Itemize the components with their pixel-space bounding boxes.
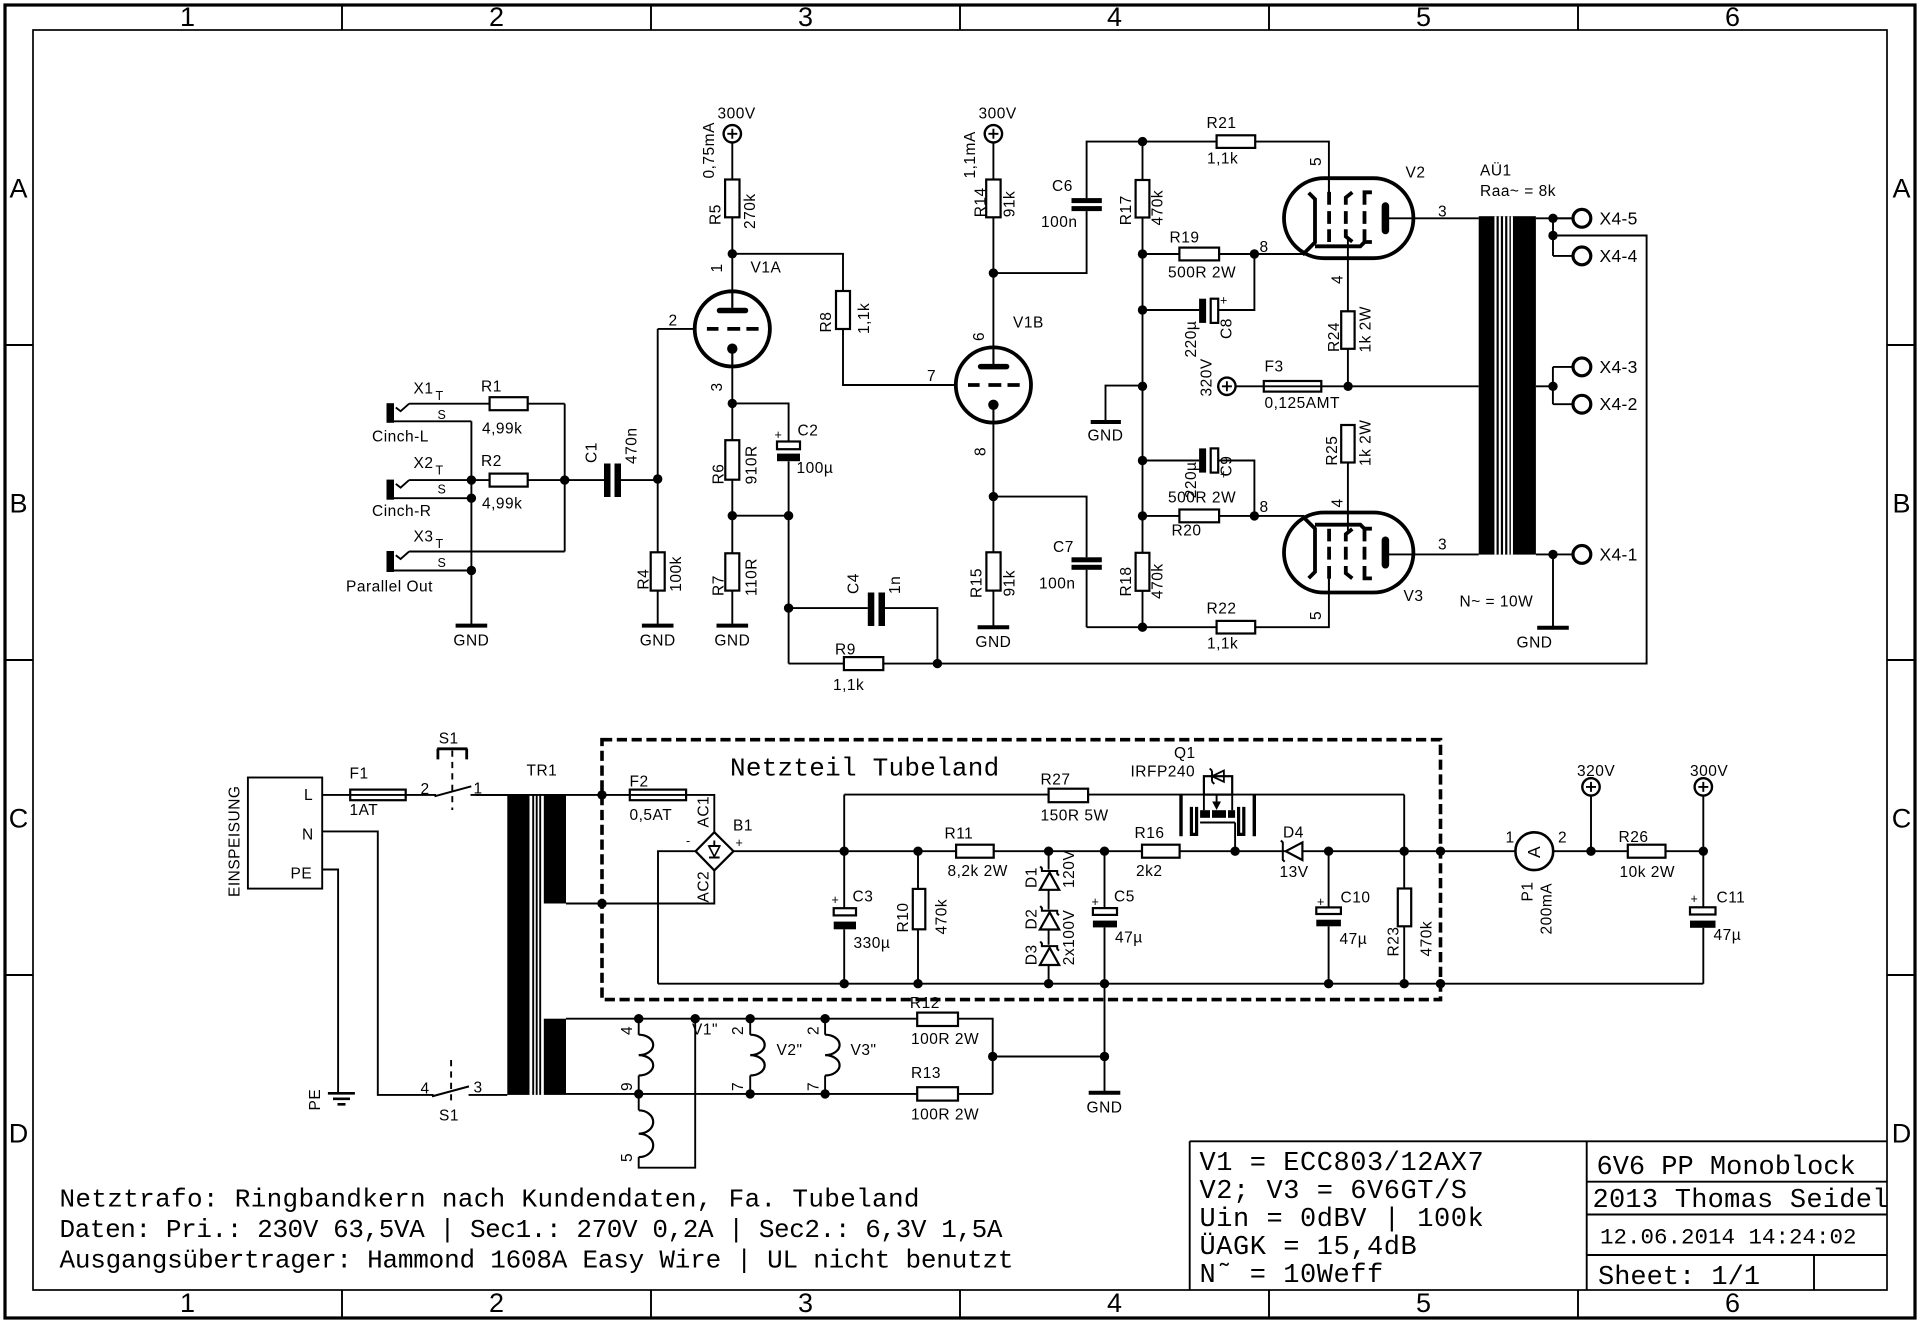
svg-text:200mA: 200mA [1539, 883, 1556, 935]
svg-text:C3: C3 [853, 889, 874, 906]
svg-text:X1: X1 [414, 381, 434, 398]
svg-text:2: 2 [669, 313, 678, 330]
svg-text:150R 5W: 150R 5W [1041, 808, 1109, 825]
svg-text:C11: C11 [1717, 890, 1746, 907]
svg-text:V2": V2" [777, 1042, 803, 1059]
svg-text:6V6 PP Monoblock: 6V6 PP Monoblock [1597, 1153, 1856, 1183]
svg-text:R4: R4 [636, 569, 653, 590]
svg-text:Sheet: 1/1: Sheet: 1/1 [1598, 1263, 1760, 1293]
svg-text:R27: R27 [1041, 772, 1071, 789]
svg-text:1,1k: 1,1k [1207, 636, 1238, 653]
svg-text:R21: R21 [1207, 115, 1237, 132]
svg-text:X3: X3 [414, 529, 434, 546]
svg-text:A: A [1524, 846, 1544, 858]
svg-text:GND: GND [1087, 1100, 1123, 1117]
svg-text:+: + [1220, 294, 1228, 308]
svg-text:4: 4 [1107, 2, 1122, 32]
svg-text:B1: B1 [733, 818, 753, 835]
svg-text:4: 4 [1330, 498, 1347, 507]
svg-text:6: 6 [1725, 2, 1740, 32]
svg-text:5: 5 [1416, 2, 1431, 32]
svg-text:R7: R7 [711, 575, 728, 596]
svg-text:3: 3 [709, 382, 726, 391]
svg-text:T: T [436, 464, 444, 478]
svg-text:B: B [9, 489, 27, 519]
svg-text:8: 8 [1260, 239, 1269, 256]
svg-text:470k: 470k [1150, 190, 1167, 226]
svg-text:Uin = 0dBV | 100k: Uin = 0dBV | 100k [1200, 1205, 1485, 1235]
svg-text:320V: 320V [1199, 358, 1216, 396]
svg-text:3: 3 [798, 1288, 813, 1318]
svg-text:V1": V1" [692, 1022, 718, 1039]
svg-text:R1: R1 [481, 379, 502, 396]
svg-text:300V: 300V [718, 106, 756, 123]
svg-text:V3: V3 [1404, 588, 1424, 605]
svg-text:5: 5 [1308, 157, 1325, 166]
svg-text:N: N [302, 827, 314, 844]
svg-text:12.06.2014 14:24:02: 12.06.2014 14:24:02 [1600, 1225, 1857, 1251]
svg-text:220µ: 220µ [1183, 321, 1200, 358]
svg-text:100n: 100n [1039, 576, 1075, 593]
svg-text:X4-5: X4-5 [1600, 208, 1638, 228]
svg-text:T: T [436, 389, 444, 403]
svg-text:GND: GND [1517, 635, 1553, 652]
svg-text:PE: PE [307, 1089, 324, 1111]
svg-text:AC1: AC1 [696, 796, 713, 828]
svg-text:7: 7 [927, 368, 936, 385]
svg-text:R24: R24 [1326, 322, 1343, 352]
svg-text:R5: R5 [708, 204, 725, 225]
svg-text:R11: R11 [945, 826, 974, 843]
svg-text:+: + [1092, 895, 1100, 909]
svg-text:F2: F2 [630, 774, 649, 791]
svg-text:4: 4 [1330, 275, 1347, 284]
svg-text:C1: C1 [584, 442, 601, 463]
svg-text:0,125AMT: 0,125AMT [1265, 395, 1341, 412]
svg-text:220µ: 220µ [1183, 462, 1200, 499]
svg-text:+: + [736, 836, 744, 850]
svg-text:4: 4 [421, 1081, 430, 1098]
svg-text:X4-3: X4-3 [1600, 357, 1638, 377]
svg-text:TR1: TR1 [527, 763, 558, 780]
svg-text:4: 4 [619, 1026, 636, 1035]
svg-text:X4-4: X4-4 [1600, 246, 1638, 266]
svg-text:GND: GND [640, 633, 676, 650]
svg-text:+: + [1317, 895, 1325, 909]
svg-text:C: C [1892, 804, 1912, 834]
svg-text:X4-1: X4-1 [1600, 544, 1638, 564]
svg-text:R25: R25 [1324, 436, 1341, 466]
svg-text:P1: P1 [1519, 882, 1536, 902]
svg-text:ÜAGK = 15,4dB: ÜAGK = 15,4dB [1200, 1231, 1418, 1263]
svg-text:330µ: 330µ [854, 935, 891, 952]
svg-text:AC2: AC2 [696, 871, 713, 903]
svg-text:D4: D4 [1283, 825, 1304, 842]
svg-text:1,1mA: 1,1mA [962, 131, 979, 178]
svg-text:Cinch-R: Cinch-R [372, 503, 431, 520]
svg-text:+: + [832, 893, 840, 907]
svg-text:3: 3 [798, 2, 813, 32]
svg-text:1: 1 [180, 1288, 195, 1318]
svg-text:91k: 91k [1002, 570, 1019, 597]
svg-text:3: 3 [1438, 204, 1447, 221]
svg-text:Netztrafo: Ringbandkern nach K: Netztrafo: Ringbandkern nach Kundendaten… [60, 1185, 920, 1215]
svg-text:1AT: 1AT [350, 802, 379, 819]
svg-text:C8: C8 [1219, 318, 1236, 339]
svg-text:B: B [1892, 489, 1910, 519]
svg-text:8: 8 [1260, 499, 1269, 516]
svg-text:R26: R26 [1619, 829, 1649, 846]
svg-text:C2: C2 [798, 423, 819, 440]
svg-text:47µ: 47µ [1714, 927, 1742, 944]
svg-text:X4-2: X4-2 [1600, 394, 1638, 414]
svg-text:V1B: V1B [1013, 315, 1044, 332]
svg-text:D3: D3 [1024, 944, 1041, 965]
svg-text:PE: PE [291, 866, 313, 883]
svg-text:AÜ1: AÜ1 [1480, 162, 1512, 180]
svg-text:R19: R19 [1170, 230, 1200, 247]
svg-text:1: 1 [709, 263, 726, 272]
svg-text:X2: X2 [414, 455, 434, 472]
svg-text:V2: V2 [1406, 165, 1426, 182]
svg-text:2x100V: 2x100V [1061, 909, 1078, 965]
svg-text:R8: R8 [818, 312, 835, 333]
svg-text:100R 2W: 100R 2W [911, 1107, 979, 1124]
svg-text:+: + [1691, 892, 1699, 906]
svg-text:D: D [9, 1119, 29, 1149]
svg-text:R18: R18 [1118, 567, 1135, 597]
svg-text:Raa~ = 8k: Raa~ = 8k [1480, 183, 1556, 200]
svg-text:GND: GND [975, 634, 1011, 651]
svg-text:320V: 320V [1577, 763, 1615, 780]
svg-text:110R: 110R [744, 558, 761, 596]
svg-text:D: D [1892, 1119, 1912, 1149]
svg-text:100k: 100k [668, 556, 685, 592]
svg-text:1k 2W: 1k 2W [1357, 420, 1374, 466]
svg-text:470n: 470n [624, 428, 641, 464]
svg-text:120V: 120V [1061, 850, 1078, 888]
svg-text:C7: C7 [1053, 539, 1074, 556]
svg-text:9: 9 [619, 1082, 636, 1091]
svg-text:Netzteil Tubeland: Netzteil Tubeland [730, 754, 1000, 784]
svg-text:2k2: 2k2 [1136, 863, 1163, 880]
svg-text:D2: D2 [1024, 909, 1041, 930]
svg-text:1,1k: 1,1k [833, 677, 864, 694]
svg-text:6: 6 [971, 332, 988, 341]
svg-text:1,1k: 1,1k [1207, 151, 1238, 168]
svg-text:EINSPEISUNG: EINSPEISUNG [227, 786, 244, 897]
svg-text:R14: R14 [973, 187, 990, 217]
svg-text:IRFP240: IRFP240 [1131, 763, 1196, 780]
svg-text:C10: C10 [1341, 890, 1371, 907]
svg-text:10k 2W: 10k 2W [1620, 864, 1676, 881]
svg-text:470k: 470k [1150, 563, 1167, 599]
svg-text:-: - [686, 834, 691, 848]
svg-text:8,2k 2W: 8,2k 2W [948, 863, 1008, 880]
svg-text:470k: 470k [1419, 921, 1436, 957]
svg-text:7: 7 [730, 1082, 747, 1091]
svg-text:91k: 91k [1001, 191, 1018, 218]
svg-text:100R 2W: 100R 2W [911, 1031, 979, 1048]
svg-text:3: 3 [474, 1080, 483, 1097]
svg-text:S: S [438, 556, 447, 570]
svg-text:2: 2 [489, 2, 504, 32]
svg-text:F3: F3 [1265, 359, 1284, 376]
svg-text:D1: D1 [1024, 867, 1041, 888]
svg-text:S: S [438, 483, 447, 497]
svg-text:R20: R20 [1172, 523, 1202, 540]
svg-text:8: 8 [973, 447, 990, 456]
svg-text:+: + [775, 428, 783, 442]
svg-text:2: 2 [1558, 830, 1567, 847]
svg-text:Daten: Pri.: 230V 63,5VA | Sec: Daten: Pri.: 230V 63,5VA | Sec1.: 270V 0… [60, 1215, 1003, 1245]
svg-text:2013 Thomas Seidel: 2013 Thomas Seidel [1593, 1186, 1889, 1216]
svg-text:4,99k: 4,99k [482, 421, 522, 438]
svg-text:Parallel Out: Parallel Out [346, 579, 433, 596]
svg-text:S1: S1 [439, 731, 459, 748]
svg-text:1n: 1n [887, 576, 904, 594]
svg-text:N˜ = 10Weff: N˜ = 10Weff [1200, 1261, 1384, 1291]
svg-text:R6: R6 [711, 464, 728, 485]
svg-text:R2: R2 [481, 453, 502, 470]
svg-text:S1: S1 [439, 1108, 459, 1125]
svg-text:3: 3 [1438, 537, 1447, 554]
svg-text:V2; V3 = 6V6GT/S: V2; V3 = 6V6GT/S [1200, 1177, 1468, 1207]
svg-text:R13: R13 [911, 1065, 941, 1082]
svg-text:Q1: Q1 [1174, 745, 1196, 762]
svg-text:0,5AT: 0,5AT [630, 807, 673, 824]
svg-text:V3": V3" [851, 1042, 877, 1059]
svg-text:S: S [438, 408, 447, 422]
svg-text:T: T [436, 537, 444, 551]
svg-text:R15: R15 [969, 568, 986, 598]
svg-text:R9: R9 [835, 642, 856, 659]
svg-text:300V: 300V [979, 106, 1017, 123]
svg-text:C5: C5 [1114, 889, 1135, 906]
svg-text:500R 2W: 500R 2W [1168, 265, 1236, 282]
svg-text:7: 7 [806, 1082, 823, 1091]
svg-text:910R: 910R [744, 445, 761, 484]
svg-text:100n: 100n [1041, 214, 1077, 231]
svg-text:A: A [9, 174, 27, 204]
svg-text:GND: GND [453, 633, 489, 650]
svg-text:R22: R22 [1207, 601, 1237, 618]
svg-text:0,75mA: 0,75mA [701, 122, 718, 179]
svg-text:270k: 270k [742, 193, 759, 229]
svg-text:C: C [9, 804, 29, 834]
svg-text:1: 1 [180, 2, 195, 32]
svg-text:2: 2 [806, 1026, 823, 1035]
svg-text:R17: R17 [1118, 195, 1135, 225]
svg-text:1k 2W: 1k 2W [1357, 306, 1374, 352]
svg-text:4: 4 [1107, 1288, 1122, 1318]
svg-text:R10: R10 [895, 903, 912, 933]
svg-text:2: 2 [730, 1026, 747, 1035]
svg-text:500R 2W: 500R 2W [1168, 490, 1236, 507]
svg-text:R12: R12 [910, 995, 940, 1012]
svg-text:R23: R23 [1386, 927, 1403, 957]
svg-text:GND: GND [1088, 428, 1124, 445]
svg-text:L: L [304, 787, 313, 804]
svg-text:1: 1 [1506, 830, 1515, 847]
svg-text:V1 = ECC803/12AX7: V1 = ECC803/12AX7 [1200, 1149, 1485, 1179]
svg-text:47µ: 47µ [1340, 931, 1368, 948]
svg-text:470k: 470k [934, 899, 951, 935]
svg-text:N~ = 10W: N~ = 10W [1460, 594, 1534, 611]
svg-text:V1A: V1A [751, 260, 782, 277]
svg-text:47µ: 47µ [1115, 930, 1143, 947]
svg-text:F1: F1 [350, 766, 369, 783]
svg-text:2: 2 [421, 781, 430, 798]
svg-text:1: 1 [474, 781, 483, 798]
svg-text:Ausgangsübertrager: Hammond 16: Ausgangsübertrager: Hammond 1608A Easy W… [60, 1245, 1014, 1275]
svg-text:300V: 300V [1690, 763, 1728, 780]
svg-text:Cinch-L: Cinch-L [372, 429, 429, 446]
svg-text:1,1k: 1,1k [856, 303, 873, 334]
svg-text:GND: GND [714, 633, 750, 650]
svg-text:+: + [1220, 468, 1228, 482]
svg-text:R16: R16 [1135, 825, 1165, 842]
svg-text:C6: C6 [1052, 178, 1073, 195]
svg-text:5: 5 [1416, 1288, 1431, 1318]
svg-text:13V: 13V [1280, 864, 1309, 881]
svg-text:100µ: 100µ [797, 460, 834, 477]
svg-text:C4: C4 [846, 573, 863, 594]
svg-text:4,99k: 4,99k [482, 495, 522, 512]
svg-text:2: 2 [489, 1288, 504, 1318]
svg-text:5: 5 [1308, 611, 1325, 620]
svg-text:5: 5 [619, 1153, 636, 1162]
svg-text:A: A [1892, 174, 1910, 204]
